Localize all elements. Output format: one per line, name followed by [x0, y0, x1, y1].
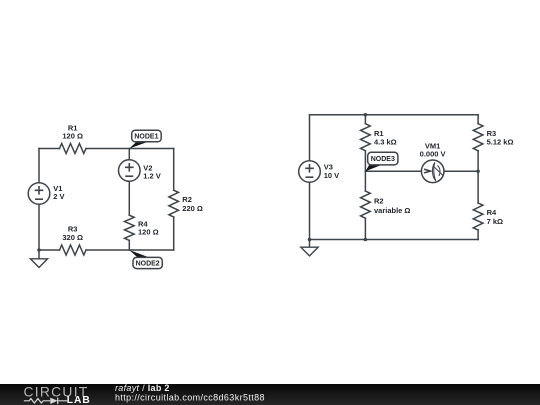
resistor R3 right-circuit: [473, 124, 483, 151]
logo CIRCUIT text: [24, 385, 89, 400]
wire left lower: [38, 204, 40, 250]
junction ground-node: [37, 248, 41, 252]
label V2: [143, 163, 161, 180]
resistor R2: [169, 190, 179, 217]
wire R1 top lead: [364, 115, 366, 124]
svg-text:320 Ω: 320 Ω: [62, 233, 83, 242]
wire V2 top lead: [128, 149, 130, 160]
node NODE3: [368, 152, 398, 165]
ground left: [30, 250, 47, 268]
label R1 right-circuit: [374, 129, 397, 146]
node NODE3 pointer: [365, 165, 381, 171]
svg-text:2 V: 2 V: [53, 192, 64, 201]
wire top right-circuit: [310, 114, 479, 116]
svg-text:7 kΩ: 7 kΩ: [487, 217, 503, 226]
svg-text:220 Ω: 220 Ω: [182, 204, 203, 213]
svg-text:4.3 kΩ: 4.3 kΩ: [374, 138, 397, 147]
label VM1: [420, 141, 446, 158]
label R2: [182, 195, 203, 213]
junction VM1-right: [476, 170, 480, 174]
wire right middle: [477, 151, 479, 203]
svg-text:R4: R4: [487, 208, 497, 217]
voltmeter VM1: [421, 160, 444, 183]
label R3 right-circuit: [487, 129, 514, 146]
label R4 right-circuit: [487, 208, 503, 226]
label V3: [324, 162, 339, 180]
wire R2 top lead: [364, 171, 366, 191]
resistor R2 right-circuit: [361, 191, 371, 218]
voltage source V3: [299, 161, 321, 183]
node NODE1: [132, 130, 162, 142]
node NODE2: [133, 257, 162, 268]
node NODE1 pointer: [129, 142, 148, 149]
wire left upper: [38, 149, 40, 183]
wire VM1 to right: [444, 170, 478, 172]
wire right lower: [477, 230, 479, 240]
wire node3 to VM1: [365, 170, 421, 172]
label R2 right-circuit: [374, 196, 410, 215]
wire left upper V3: [309, 115, 311, 161]
label R4: [138, 220, 159, 237]
wire V2 to R4: [128, 181, 130, 215]
svg-text:R2: R2: [374, 196, 384, 205]
svg-text:120 Ω: 120 Ω: [138, 227, 159, 236]
wire R4 bottom lead: [128, 240, 130, 250]
svg-text:NODE1: NODE1: [134, 134, 158, 141]
svg-text:NODE2: NODE2: [136, 261, 160, 268]
label R3: [62, 225, 83, 242]
junction R1 top: [364, 113, 368, 117]
node NODE2 pointer: [129, 250, 149, 257]
ground right-circuit: [301, 240, 318, 256]
wire top-left segment: [39, 148, 60, 150]
svg-text:variable Ω: variable Ω: [374, 206, 410, 215]
svg-text:5.12 kΩ: 5.12 kΩ: [487, 138, 514, 147]
footer title rafayt / lab 2: [115, 383, 170, 393]
logo resistor-diode line: [24, 398, 67, 404]
wire bottom-left segment: [39, 249, 60, 251]
resistor R3: [60, 245, 87, 255]
wire bottom right-circuit: [310, 239, 479, 241]
svg-text:NODE3: NODE3: [371, 156, 395, 163]
wire R1 to node3: [364, 151, 366, 172]
resistor R4: [125, 215, 135, 240]
wire left lower V3: [309, 182, 311, 239]
svg-text:rafayt / lab 2: rafayt / lab 2: [115, 383, 170, 393]
wire bottom-right segment: [86, 249, 174, 251]
wire top-right segment: [86, 148, 174, 150]
voltage source V1: [28, 183, 50, 205]
svg-text:R2: R2: [182, 195, 192, 204]
wire R2 bottom lead: [364, 218, 366, 239]
svg-text:10 V: 10 V: [324, 171, 339, 180]
svg-text:1.2 V: 1.2 V: [143, 172, 161, 181]
resistor R4 right-circuit: [473, 203, 483, 230]
resistor R1 right-circuit: [361, 124, 371, 151]
label R1: [62, 123, 83, 140]
wire right side: [173, 149, 175, 191]
svg-text:http://circuitlab.com/cc8d63kr: http://circuitlab.com/cc8d63kr5tt88: [115, 392, 265, 402]
wire right upper: [477, 115, 479, 124]
footer url: [115, 392, 265, 402]
svg-text:0.000 V: 0.000 V: [420, 150, 446, 159]
logo LAB text: [67, 395, 91, 405]
junction bottom-left: [308, 238, 312, 242]
resistor R1: [60, 144, 87, 154]
label V1: [53, 184, 64, 201]
wire right lower: [173, 217, 175, 250]
junction R2 bottom: [364, 238, 368, 242]
voltage source V2: [119, 160, 141, 182]
footer bar: [0, 384, 540, 405]
svg-text:LAB: LAB: [67, 395, 91, 405]
svg-text:120 Ω: 120 Ω: [62, 132, 83, 141]
